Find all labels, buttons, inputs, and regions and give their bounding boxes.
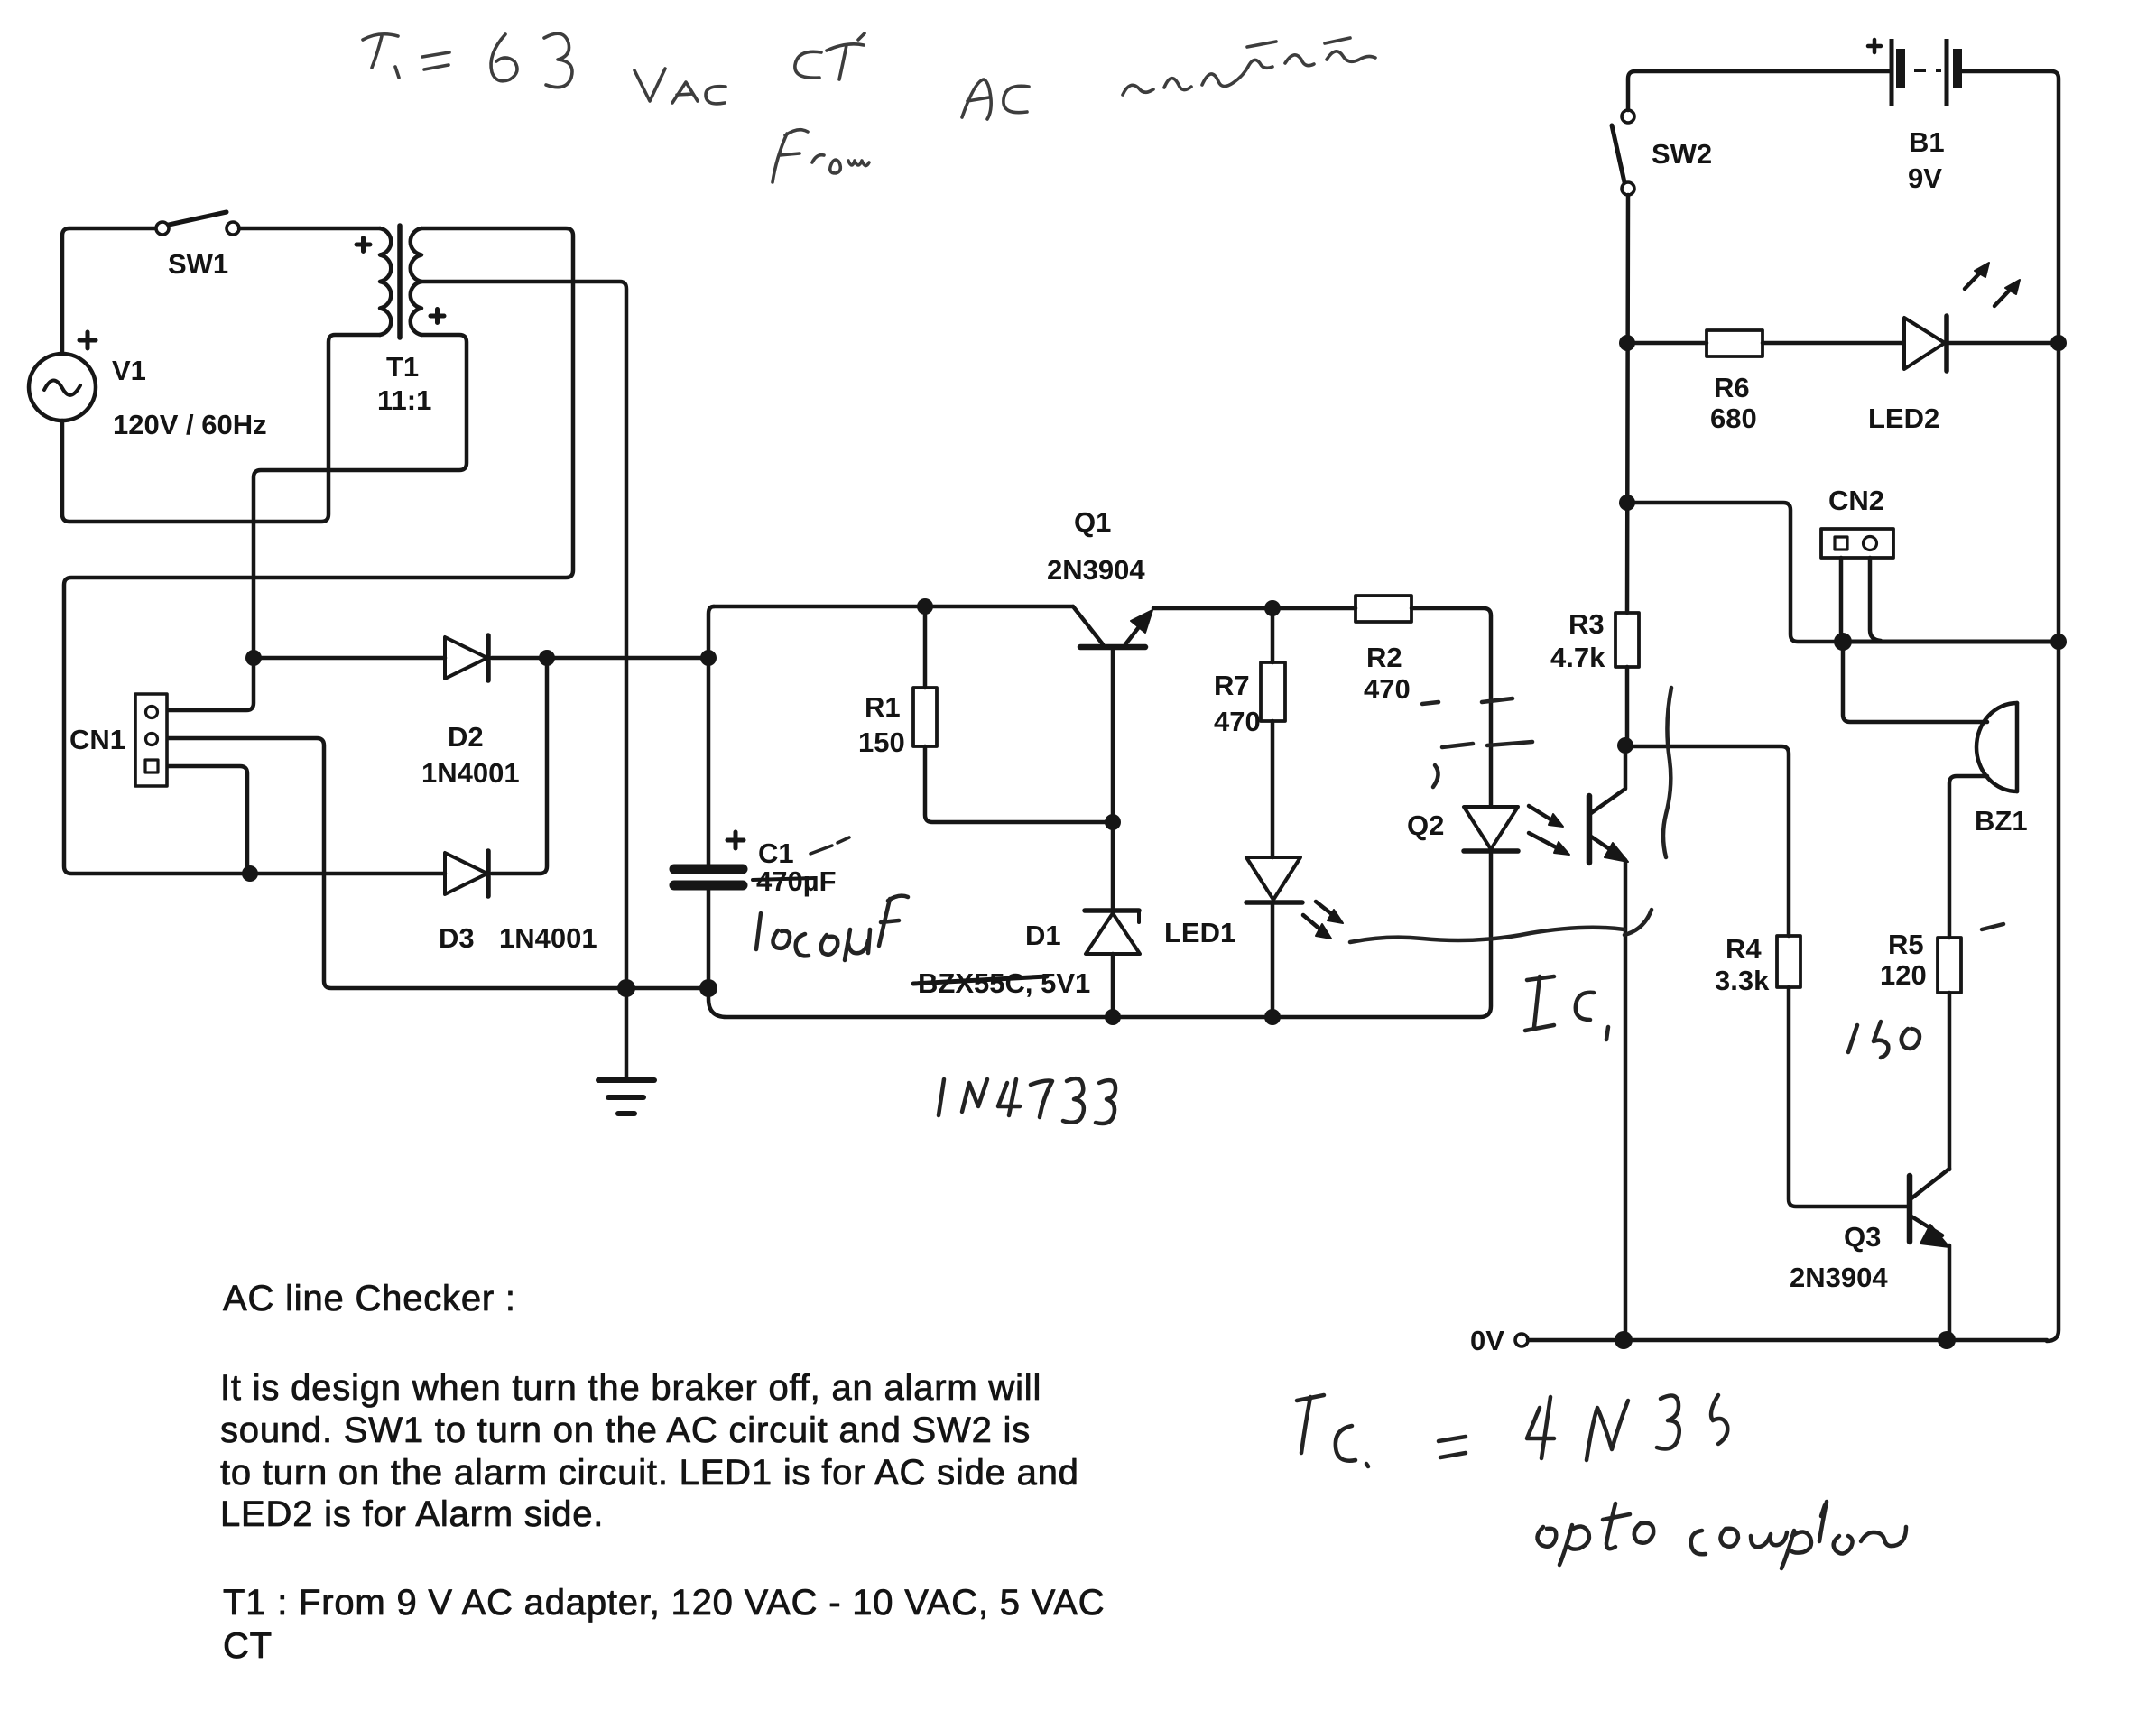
ground symbol: [598, 1080, 654, 1114]
diode D2 1N4001: [445, 635, 488, 680]
wire SW2 to R3 vertical: [1627, 195, 1628, 613]
zener diode D1: [1085, 911, 1140, 1017]
handwritten T1 = 63 VAC CT: [363, 33, 1375, 182]
LED2 emission arrows: [1965, 263, 2020, 306]
resistor R1: [913, 606, 1113, 822]
wire V1 top to SW1: [62, 228, 155, 354]
svg-text:CN1: CN1: [69, 724, 125, 755]
svg-text:to turn on the alarm circuit.: to turn on the alarm circuit. LED1 is fo…: [220, 1453, 1079, 1493]
wire D2 anode feed: [254, 656, 445, 661]
svg-text:3.3k: 3.3k: [1715, 965, 1770, 996]
handwritten opto coupler: [1537, 1527, 1556, 1547]
wire CN1 pin3 to secondary-top rail: [168, 766, 247, 872]
transistor Q3 2N3904: [1910, 1169, 1949, 1340]
switch SW2: [1612, 110, 1634, 195]
svg-text:R4: R4: [1726, 933, 1762, 965]
wire CN2/B1- bold horizontal: [1843, 640, 2059, 644]
svg-text:120V / 60Hz: 120V / 60Hz: [113, 409, 267, 440]
opto-coupler Q2 phototransistor: [1589, 745, 1628, 1340]
svg-text:CT: CT: [223, 1626, 273, 1666]
resistor R6: [1707, 330, 1763, 356]
wire SW1 to T1 primary: [239, 227, 380, 231]
resistor R5: [1938, 938, 1961, 1170]
svg-text:D3: D3: [439, 922, 475, 954]
handwritten annotations: [363, 33, 2003, 1568]
transformer T1 core: [397, 226, 403, 338]
LED1 emission arrows: [1303, 902, 1343, 939]
wire secondary center tap to ground: [421, 282, 626, 1079]
svg-text:sound. SW1 to turn on the AC c: sound. SW1 to turn on the AC circuit and…: [220, 1410, 1031, 1450]
svg-text:9V: 9V: [1908, 162, 1942, 194]
C1 plus polarity mark: [727, 832, 744, 848]
svg-text:R7: R7: [1214, 670, 1250, 701]
svg-text:SW2: SW2: [1652, 138, 1712, 170]
resistor R4: [1777, 936, 1908, 1207]
svg-text:0V: 0V: [1470, 1325, 1504, 1356]
0V terminal: [1515, 1334, 2047, 1346]
Q2 light arrows: [1529, 806, 1569, 855]
handwritten 1000uF near C1: [756, 913, 761, 949]
transistor Q1 2N3904: [1073, 606, 1152, 911]
handwritten 150 near R5: [1848, 1025, 1857, 1052]
svg-text:2N3904: 2N3904: [1790, 1262, 1888, 1293]
top rail right part with R2: [1153, 608, 1491, 807]
handwritten adapter: [1123, 51, 1375, 95]
svg-text:B1: B1: [1909, 126, 1945, 158]
svg-text:LED2 is for Alarm side.: LED2 is for Alarm side.: [220, 1494, 604, 1534]
switch SW1: [156, 212, 239, 235]
svg-text:1N4001: 1N4001: [499, 922, 597, 954]
svg-text:R2: R2: [1366, 642, 1402, 673]
svg-text:1N4001: 1N4001: [421, 757, 520, 789]
handwritten 1N4733 under D1: [939, 1079, 944, 1115]
svg-text:SW1: SW1: [168, 248, 228, 280]
wire T1 primary return to V1 bottom: [62, 335, 380, 522]
wire D2 cathode to C1 node: [492, 656, 707, 661]
wire R3 top node to CN2 left pin: [1627, 503, 1843, 642]
svg-text:LED2: LED2: [1868, 402, 1939, 434]
svg-text:T1: T1: [386, 351, 419, 383]
wire secondary top tap to CN1 loop (right, down, left, down, bottom rail to D3): [64, 228, 573, 874]
handwritten smudge near 470uF: [810, 837, 849, 854]
svg-text:11:1: 11:1: [377, 384, 431, 416]
svg-text:470µF: 470µF: [756, 865, 837, 897]
wire CN1 pin2 to ground rail: [168, 738, 709, 988]
resistor R2: [1356, 596, 1411, 622]
svg-text:120: 120: [1880, 959, 1927, 991]
svg-text:D2: D2: [448, 721, 484, 753]
B1 plus polarity mark: [1868, 40, 1881, 52]
handwritten From: [773, 130, 808, 182]
battery B1 9V: [1892, 39, 1962, 106]
svg-text:LED1: LED1: [1164, 917, 1235, 948]
svg-text:R6: R6: [1714, 372, 1750, 403]
T1 primary polarity +: [356, 238, 370, 252]
wire D3 cathode up to D2 output node: [492, 658, 547, 874]
svg-text:R5: R5: [1888, 929, 1924, 960]
wire secondary bottom tap to CN1 pin1 and D2 anode node: [168, 335, 467, 710]
diode D3 1N4001: [445, 851, 488, 896]
svg-text:T1 : From 9 V AC adapter, 120: T1 : From 9 V AC adapter, 120 VAC - 10 V…: [223, 1583, 1105, 1623]
LED2: [1904, 316, 2059, 371]
svg-text:Q2: Q2: [1407, 809, 1444, 841]
transformer T1 primary winding: [380, 228, 391, 335]
handwritten IC1 mark: [1525, 976, 1554, 1031]
wire SW2 top to battery: [1628, 71, 1890, 110]
handwritten IC = 4N35: [1297, 1395, 1324, 1453]
wire battery to right rail down to 0V: [1961, 71, 2059, 1341]
wire R6 rail: [1627, 341, 1903, 346]
buzzer BZ1: [1949, 703, 2017, 938]
top rail left part: [714, 605, 1073, 609]
capacitor C1 with middle block left edge: [674, 606, 743, 988]
svg-text:R1: R1: [865, 691, 901, 723]
AC source V1: [29, 354, 96, 421]
title text block: [220, 1279, 1105, 1666]
wire C1 bottom to bottom rail of middle block: [708, 853, 1491, 1017]
handwritten scribbles near opto: [1442, 742, 1532, 747]
svg-text:CN2: CN2: [1828, 485, 1884, 516]
opto-coupler Q2 LED: [1464, 807, 1518, 851]
svg-text:It is design when turn the bra: It is design when turn the braker off, a…: [220, 1368, 1041, 1408]
handwritten AC: [962, 79, 991, 119]
svg-text:V1: V1: [112, 355, 146, 386]
svg-text:AC line Checker :: AC line Checker :: [223, 1279, 516, 1318]
wire CN2 node down to buzzer top: [1843, 642, 1987, 722]
svg-text:150: 150: [858, 726, 905, 758]
svg-text:2N3904: 2N3904: [1047, 554, 1145, 586]
V1 plus polarity mark: [79, 332, 96, 348]
svg-text:Q3: Q3: [1844, 1221, 1881, 1253]
svg-text:D1: D1: [1025, 920, 1061, 951]
svg-text:470: 470: [1364, 673, 1411, 705]
transformer T1 secondary winding lower: [411, 282, 421, 335]
wire phototransistor node to R4: [1629, 746, 1789, 936]
resistor R3: [1615, 613, 1639, 745]
svg-text:BZ1: BZ1: [1975, 805, 2028, 837]
transformer T1 secondary winding upper: [411, 228, 421, 282]
LED1 branch with R7: [1246, 608, 1302, 1017]
connector CN2: [1821, 529, 1893, 642]
T1 secondary polarity +: [430, 310, 444, 323]
svg-text:4.7k: 4.7k: [1550, 642, 1605, 673]
svg-text:R3: R3: [1568, 608, 1605, 640]
svg-text:Q1: Q1: [1074, 506, 1111, 538]
svg-text:C1: C1: [758, 837, 794, 869]
connector CN1: [135, 694, 167, 786]
svg-text:680: 680: [1710, 402, 1757, 434]
svg-text:470: 470: [1214, 706, 1261, 737]
